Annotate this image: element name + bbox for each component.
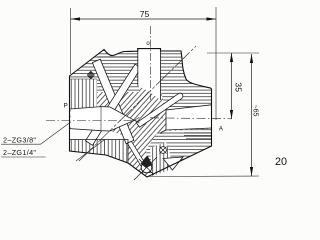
- body outline stroke: [70, 49, 212, 177]
- cross lines over ball: [134, 157, 157, 180]
- bottom cone port (white triangle cutout): [163, 157, 183, 170]
- dimension 65 line: [251, 54, 253, 176]
- vertical hatch zone: P boss: [70, 79, 98, 109]
- dimension 75: extension line left: [70, 8, 72, 74]
- dimension 75 line with arrows: [71, 18, 217, 20]
- P port thread boundary tick: [100, 107, 102, 131]
- P port bore (white cutout): [71, 107, 135, 131]
- dimension 35 line: [231, 53, 233, 119]
- dark wedge at seat: [141, 156, 153, 168]
- passage band toward A port: [136, 93, 183, 127]
- A port bore (white cutout): [166, 105, 212, 130]
- svg-text:P: P: [64, 103, 68, 110]
- valve body silhouette with diagonal hatch base: [70, 49, 212, 177]
- svg-text:A: A: [219, 125, 224, 132]
- small diamond node upper-left: [87, 71, 94, 78]
- insert block top and right edge: [69, 140, 128, 164]
- stem rod tip to ball: [127, 141, 147, 169]
- cover seam line on top: [97, 56, 138, 58]
- P port cone tip extension lines: [134, 117, 139, 123]
- svg-text:75: 75: [140, 9, 150, 19]
- small seat circle with cross: [160, 147, 167, 154]
- svg-text:2–ZG3/8": 2–ZG3/8": [3, 136, 36, 145]
- bottom extension line for 65: [147, 175, 259, 178]
- ball at seat: [141, 162, 152, 173]
- leader for bottom port: [76, 140, 104, 161]
- P port outline with cone tip: [70, 107, 134, 131]
- svg-text:~65: ~65: [252, 105, 259, 117]
- 45 deg stem centerline (dash-dot): [79, 46, 196, 161]
- A port outline: [161, 105, 212, 134]
- boss seam line: [70, 78, 98, 80]
- vertical hatch zone: bottom center right of ball: [150, 142, 175, 176]
- svg-text:o: o: [146, 41, 150, 47]
- slot walls: [138, 49, 161, 101]
- white gap strip below P port: [70, 129, 129, 140]
- horizontal hatch zone: right flange around A port: [161, 51, 212, 110]
- horizontal hatch zone: below A port and bottom-right wedge: [146, 129, 212, 177]
- svg-text:20: 20: [275, 156, 287, 168]
- horizontal hatch zone: top cover: [70, 50, 140, 93]
- svg-text:35: 35: [234, 82, 244, 92]
- vertical hatch zone: insert block below P port: [69, 140, 128, 164]
- poppet band (SW-NE white band into seat slot): [86, 64, 141, 145]
- stem band (NW-SE white band): [92, 59, 133, 144]
- top extension line for 35/65: [207, 52, 259, 54]
- counterbore steps below A port: [184, 133, 212, 139]
- A port axis centerline: [150, 118, 232, 119]
- vertical seat bore slot (white cutout): [138, 49, 160, 100]
- svg-text:2–ZG1/4": 2–ZG1/4": [3, 148, 36, 157]
- dimension 75: extension line right: [215, 7, 217, 120]
- horizontal port axis centerline P-A: [46, 120, 140, 122]
- vertical centerline of seat bore: [150, 26, 152, 100]
